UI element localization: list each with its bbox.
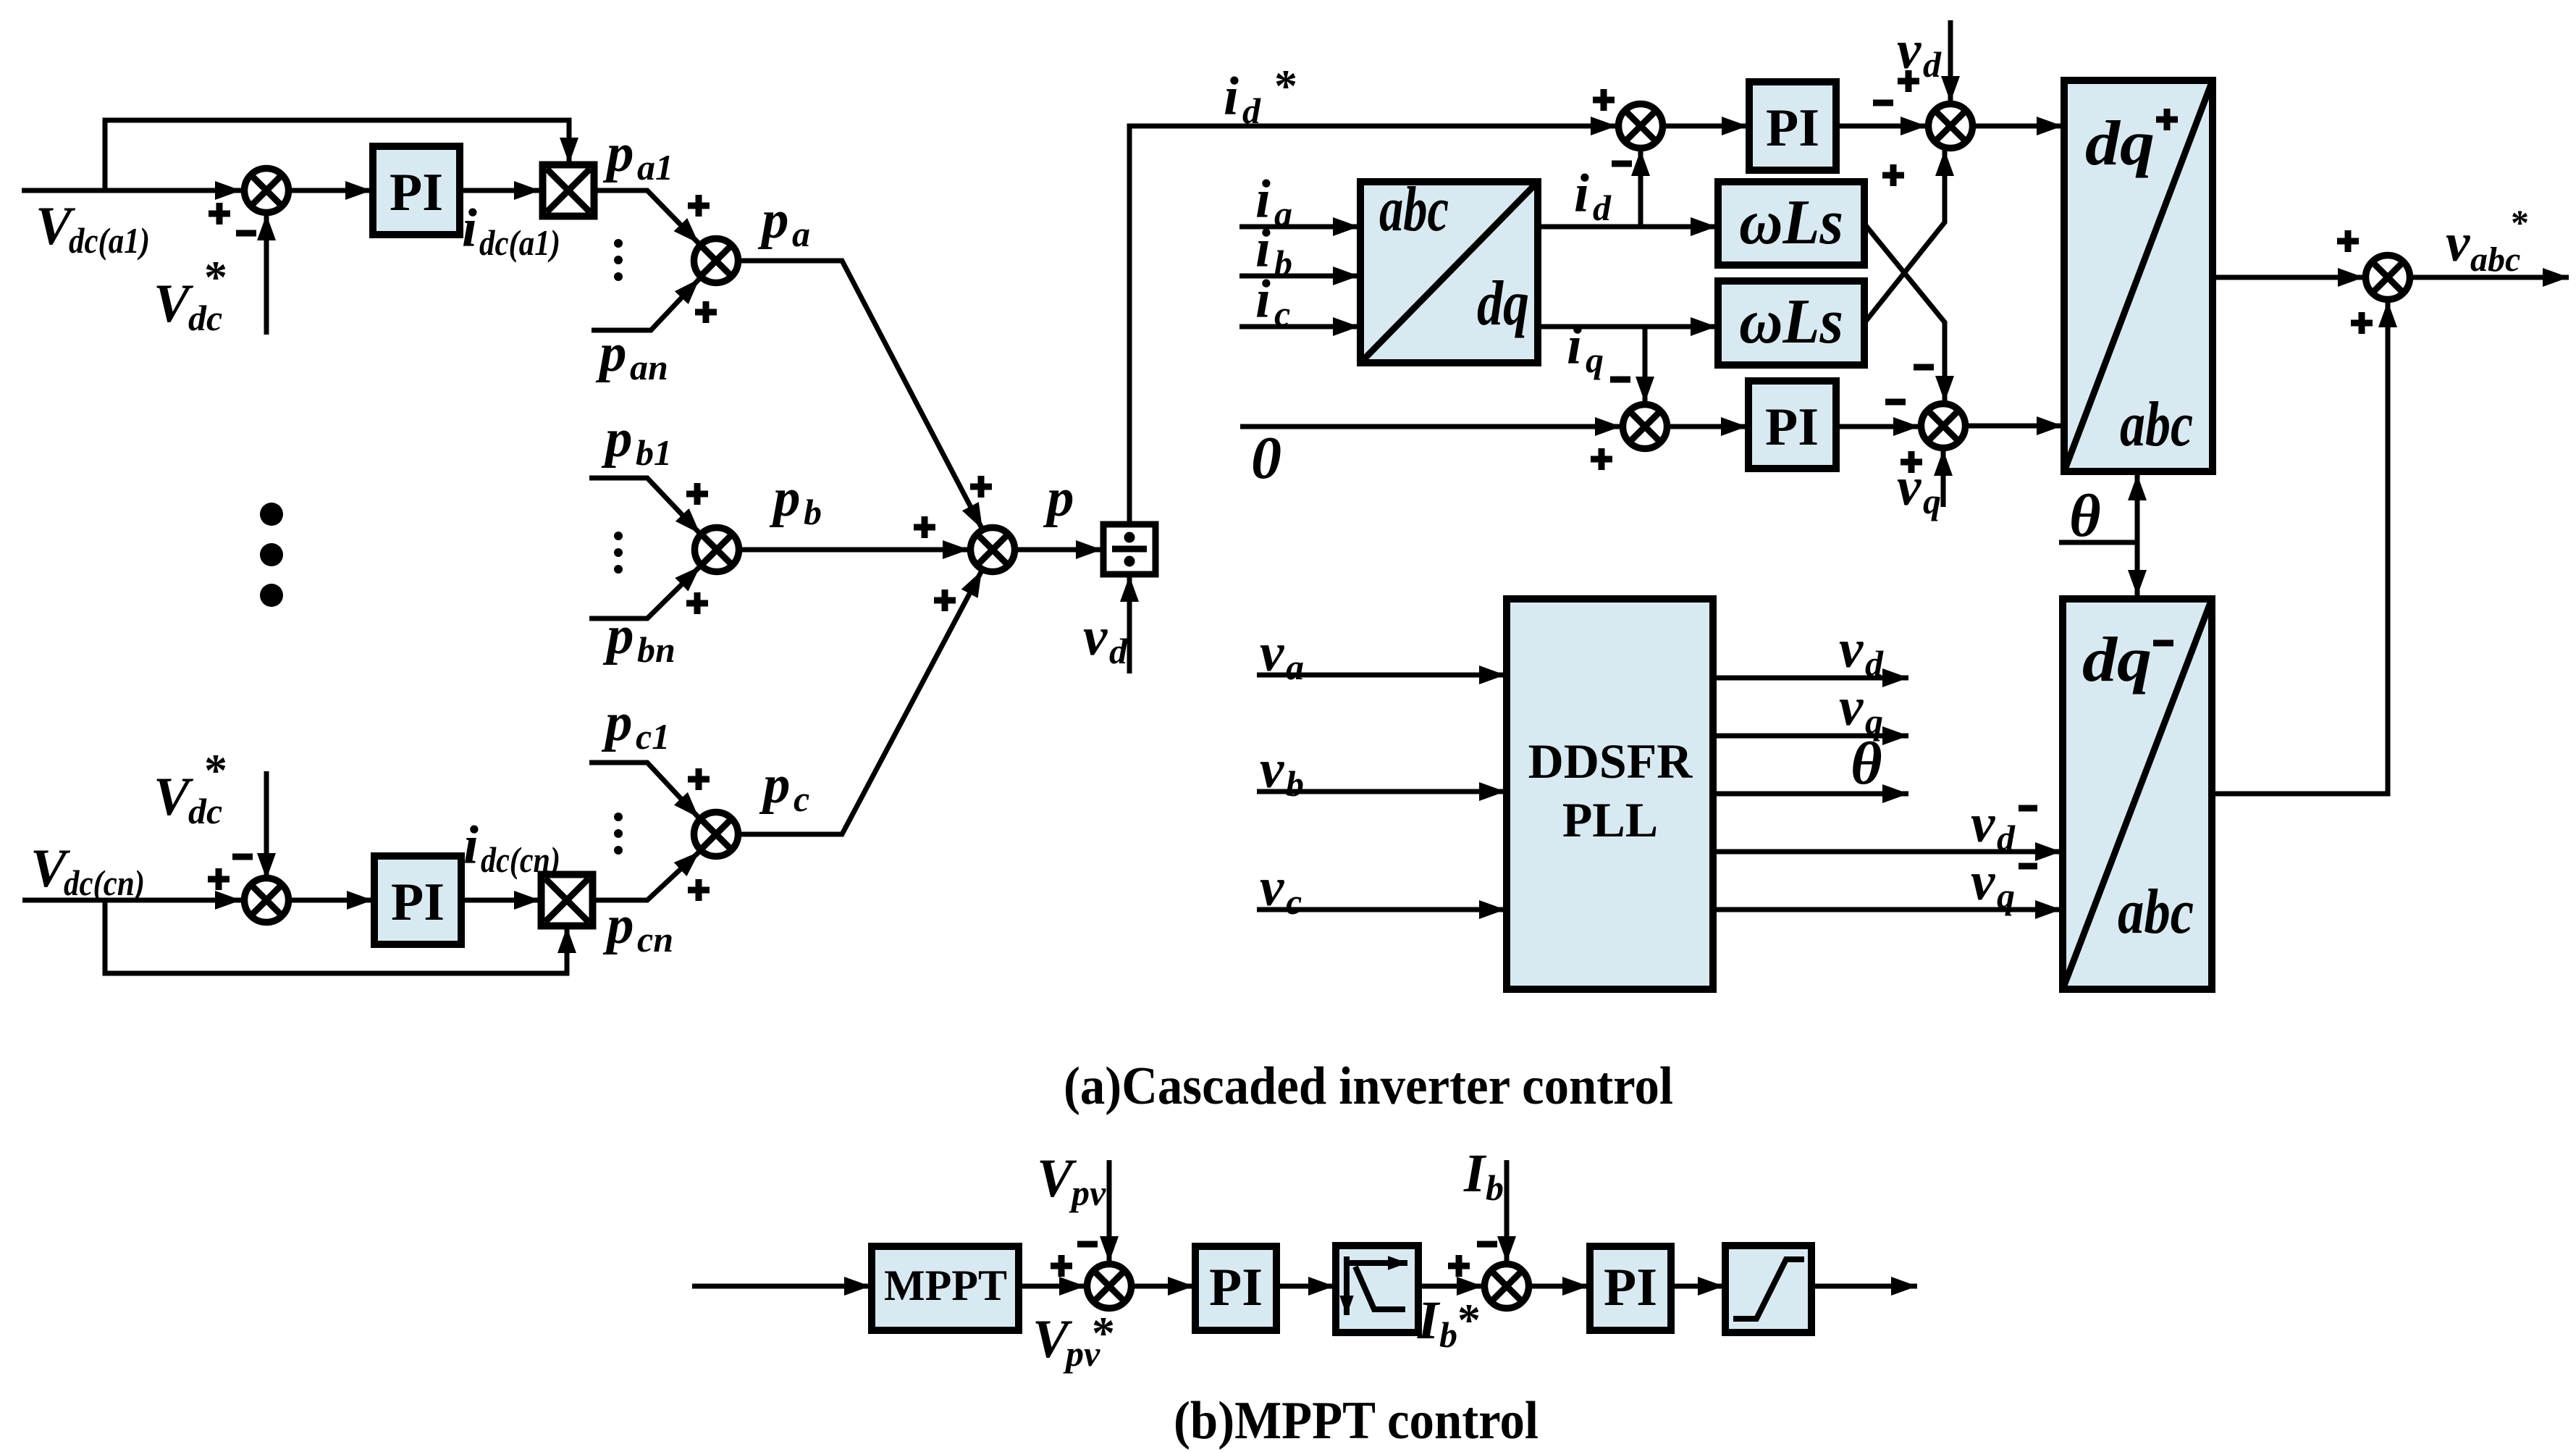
wire S3 to PI B [1667,424,1747,429]
node dots between p_b1 and p_bn [614,532,623,540]
svg-text:c: c [1274,293,1290,334]
svg-text:b: b [1274,243,1292,283]
node plus sign PB top [686,483,708,505]
svg-text:θ: θ [2069,482,2101,550]
wire p_b1 to sum PB [589,478,700,534]
svg-text:p: p [601,408,633,469]
wire i_b input [1239,274,1359,279]
summing junction PB [695,528,739,572]
wire M1 to PI M1 [1132,1284,1194,1289]
node plus sign PA top [688,195,710,217]
svg-text:dc: dc [188,298,222,338]
svg-text:PLL: PLL [1562,792,1658,847]
svg-text:v: v [2446,213,2470,273]
svg-text:b: b [1286,763,1304,804]
svg-text:a: a [1274,193,1292,234]
block PI B [1748,381,1836,469]
svg-text:p: p [602,605,634,666]
svg-text:(a)Cascaded inverter control: (a)Cascaded inverter control [1064,1057,1673,1116]
wire v_a input [1257,673,1505,678]
wire v_b input [1257,789,1505,794]
block PI A [373,146,460,235]
wire rate limiter to M2 [1418,1284,1483,1289]
svg-text:i: i [1224,67,1239,127]
wire Vdc(a1) input [22,188,241,193]
node plus sign S1 [1593,89,1615,111]
wire i_q junction down to S3 [1643,327,1648,403]
node plus sign BP top [970,476,992,498]
wire V_pv into M1 [1107,1160,1112,1262]
wire theta underline [2059,540,2137,545]
wire PI B to S4 [1836,424,1919,429]
svg-text:PI: PI [390,163,443,222]
node plus sign PC bottom [688,879,710,901]
wire feedback Vdc(a1) to multiplier A [105,120,569,190]
svg-text:ωLs: ωLs [1739,188,1843,258]
node minus sign S1 [1612,161,1632,167]
svg-text:v: v [1083,607,1108,667]
svg-text:cn: cn [637,919,673,960]
svg-text:q: q [1586,340,1604,380]
svg-text:c: c [794,779,809,819]
node plus sign S2 bottom [1882,164,1904,186]
svg-text:p: p [602,895,634,955]
node plus sign BP left [914,516,935,538]
wire v_d output stub [1713,676,1908,681]
node dots between p_c1 and p_cn [614,813,623,821]
summing junction SC [245,878,289,923]
divider block [1103,524,1156,574]
wire PI C to multiplier C [461,898,540,903]
svg-text:v: v [1260,739,1284,800]
svg-text:v: v [1260,857,1284,918]
block PI T [1749,82,1836,170]
wire S2 to dq+ [1973,124,2063,129]
svg-text:*: * [204,251,227,303]
wire p_bn to sum PB [589,566,700,618]
wire v_q- output to dq- [1713,907,2061,912]
node plus sign SA [209,203,230,224]
svg-text:dc(cn): dc(cn) [64,863,145,903]
svg-text:v: v [1897,457,1922,517]
svg-text:d: d [1593,188,1612,228]
wire I_b into M2 [1504,1160,1510,1262]
svg-text:i: i [1567,316,1582,376]
wire p to divider [1015,547,1102,553]
wire output [1811,1284,1917,1289]
svg-text:q: q [1997,876,2015,916]
svg-text:i: i [1255,269,1271,330]
svg-text:a: a [792,214,810,254]
summing junction S1 [1619,104,1663,148]
block PI M2 [1590,1246,1671,1330]
wire Vdc(cn) input [22,898,241,903]
svg-text:*: * [204,744,227,796]
block MPPT [872,1246,1019,1330]
node plus sign SC [208,868,230,890]
wire i_d junction up to S1 [1638,150,1643,227]
node minus sign S4 top [1914,364,1934,371]
svg-text:q: q [1923,481,1941,521]
svg-text:abc: abc [2118,877,2194,947]
summing junction S4 [1922,404,1966,448]
svg-text:p: p [769,468,801,528]
svg-text:p: p [759,755,791,815]
svg-text:bn: bn [637,629,675,670]
wire p_c to big sum [738,571,982,834]
block rate limiter [1336,1246,1418,1333]
node plus sign FS bottom [2351,312,2373,334]
wire i_d output to wLs1 [1538,224,1717,230]
svg-text:v: v [1971,852,1995,912]
svg-text:b1: b1 [636,432,672,473]
svg-text:MPPT: MPPT [884,1262,1007,1309]
svg-text:dq: dq [1477,269,1529,339]
node plus sign S2 top [1898,70,1919,92]
svg-text:a1: a1 [637,147,673,188]
svg-text:v: v [1839,619,1864,679]
block saturation [1725,1246,1811,1333]
wire Vdc* reference into SA [264,214,269,335]
node minus sign S4 left [1885,399,1906,406]
summing junction PC [694,813,738,857]
summing junction BP (p total) [971,528,1015,572]
wire v_abc* output [2410,275,2569,280]
summing junction M1 [1087,1264,1132,1309]
wire dq+ output to final sum [2213,275,2364,280]
node plus sign FS left [2337,230,2359,252]
svg-text:v: v [1260,623,1284,683]
svg-text:i: i [463,815,479,876]
node plus sign BP bottom [934,589,956,611]
svg-text:v: v [1839,677,1864,737]
svg-text:b: b [804,492,822,532]
svg-text:dc(a1): dc(a1) [69,220,150,261]
svg-text:c1: c1 [636,716,670,757]
svg-text:dq: dq [2082,625,2152,695]
wire S1 to PI T [1663,124,1748,129]
svg-text:PI: PI [1209,1258,1263,1317]
wire S4 to dq+ [1966,424,2063,429]
svg-text:d: d [1242,91,1261,131]
wire v_d into divider [1127,576,1132,673]
wire PI M1 to rate limiter [1276,1284,1334,1289]
summing junction S2 [1929,104,1973,148]
svg-text:an: an [630,347,668,387]
node minus sign M2 [1477,1241,1497,1248]
wire p_a to big sum [738,261,982,529]
block wLs1 [1718,182,1864,265]
svg-text:dc(a1): dc(a1) [479,222,560,263]
wire 0 input [1240,424,1621,429]
svg-text:PI: PI [1604,1258,1657,1317]
svg-text:PI: PI [1765,398,1819,457]
wire p_cn to sum PC [593,852,699,900]
node plus sign PC top [688,768,710,790]
svg-text:dq: dq [2085,109,2155,179]
summing junction M2 [1485,1264,1529,1309]
wire PI T to S2 [1836,124,1927,129]
svg-text:v: v [1971,794,1995,854]
node dots between p_a1 and p_an [614,239,623,248]
svg-text:p: p [601,692,633,752]
summing junction PA [694,239,738,283]
block DDSFR PLL [1507,599,1713,989]
summing junction S3 [1623,405,1667,449]
node plus sign M2 [1448,1255,1470,1277]
wire SA to PI A [289,188,371,193]
wire MPPT to M1 [1019,1284,1085,1289]
svg-text:p: p [602,123,634,183]
svg-text:d: d [1109,631,1128,671]
wire Vdc* reference into SC [264,771,269,879]
svg-text:p: p [757,190,789,250]
node minus sign S3 top [1610,377,1630,383]
wire PI M2 to saturation [1671,1284,1724,1289]
svg-text:abc: abc [1379,175,1449,245]
svg-text:b: b [1486,1167,1504,1208]
svg-text:abc: abc [2470,240,2520,279]
wire v_d top into S2 [1948,20,1953,102]
svg-text:I: I [1463,1143,1487,1204]
wire i_d* from divider [1129,126,1617,524]
node minus sign SA [236,230,256,237]
svg-text:d: d [1923,44,1942,85]
svg-text:DDSFR: DDSFR [1528,734,1693,789]
node plus sign M1 [1051,1255,1072,1277]
wire dq- output to final sum [2212,301,2388,794]
svg-text:a: a [1286,647,1304,687]
wire SC to PI C [289,898,373,903]
svg-text:ωLs: ωLs [1739,287,1843,357]
wire theta output stub [1713,792,1908,797]
multiplier X-box A [543,165,594,217]
svg-text:dc: dc [188,791,222,831]
multiplier X-box C [542,875,593,926]
node minus sign SC [232,854,253,860]
svg-text:*: * [1092,1307,1115,1359]
svg-text:c: c [1286,881,1302,922]
block wLs2 [1718,281,1864,365]
node plus sign S3 [1591,448,1612,470]
svg-text:(b)MPPT control: (b)MPPT control [1174,1391,1539,1451]
block abc-dq [1360,182,1538,363]
svg-text:i: i [462,198,477,259]
wire MPPT input [692,1284,870,1289]
wire v_q into S4 [1941,450,1946,507]
wire cross wLs1 to S4 [1864,224,1945,402]
summing junction FS [2366,256,2410,300]
wire p_c1 to sum PC [589,763,699,818]
svg-text:*: * [1457,1294,1481,1346]
wire p_an to sum PA [592,279,699,330]
wire i_a input [1239,224,1359,230]
svg-text:p: p [1043,468,1074,528]
node plus sign PB bottom [686,592,708,614]
block dq- abc [2063,599,2212,989]
wire v_d- output to dq- [1713,849,2061,855]
svg-text:PI: PI [1766,98,1819,158]
svg-text:p: p [595,323,627,383]
svg-text:d: d [1997,818,2016,858]
node plus sign PA bottom [695,301,717,323]
wire theta double arrow [2135,474,2140,596]
block dq+ abc [2064,80,2213,471]
svg-text:PI: PI [391,873,445,932]
wire M2 to PI M2 [1529,1284,1588,1289]
wire feedback Vdc(cn) to multiplier C [105,900,567,973]
summing junction SA [245,169,289,213]
wire i_q output to wLs2 [1538,324,1717,330]
svg-text:i: i [1574,164,1589,224]
wire v_c input [1257,907,1505,912]
svg-text:θ: θ [1851,730,1882,797]
node minus sign M1 [1077,1241,1098,1248]
svg-text:d: d [1865,643,1884,684]
svg-text:0: 0 [1251,424,1281,492]
svg-text:*: * [1274,60,1297,112]
svg-text:I: I [1417,1291,1441,1351]
wire PI A to multiplier A [460,188,540,193]
svg-text:abc: abc [2120,390,2193,460]
node plus sign S4 bottom [1901,451,1922,473]
block PI M1 [1195,1246,1276,1330]
node minus sign S2 left [1873,100,1893,106]
wire p_b to big sum [739,547,969,553]
svg-text:b: b [1439,1314,1457,1355]
wire i_c input [1239,324,1359,330]
wire v_q output stub [1713,734,1908,739]
node chain dots left [260,503,283,526]
block PI C [374,856,461,944]
svg-text:pv: pv [1069,1172,1106,1213]
svg-text:*: * [2511,202,2529,243]
wire cross wLs2 to S2 [1864,150,1945,323]
wire p_a1 to sum PA [594,190,699,243]
